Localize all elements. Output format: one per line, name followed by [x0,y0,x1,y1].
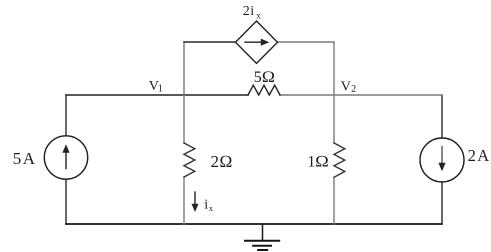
svg-text:1: 1 [158,84,163,95]
svg-text:2: 2 [468,146,476,165]
current source I2 circle (2 A) [420,138,464,182]
ix current arrow (points down) [194,192,196,206]
svg-text:i: i [250,4,254,19]
svg-text:Ω: Ω [315,154,329,171]
I2 arrow (points down) [441,147,443,165]
wire: middle horizontal left segment (y=95, x66-248) [66,94,248,96]
wire: top inner right segment (y=42, x277.5-334) [278,41,335,43]
svg-text:x: x [209,203,214,213]
wire: V2 branch vertical above resistor (x=334, y42-143) [333,42,335,143]
dependent source arrow (points right) [245,41,262,43]
wire: right vertical upper (x=442, y95-138) [441,95,443,138]
wire: V2 branch vertical below resistor (x=334, y177-224) [333,178,335,225]
svg-text:2: 2 [351,84,356,95]
wire: V1 branch vertical above resistor (x=184, y42-143) [183,42,185,143]
svg-text:x: x [256,10,261,20]
resistor R 2ohm (vertical zigzag on x=184) [184,143,195,177]
current source I1 circle (5 A) [44,136,87,179]
svg-text:Ω: Ω [219,152,232,171]
wire: V1 branch vertical below resistor (x=184, y177-224) [183,177,185,224]
wire: top inner left segment (y=42, x184-235.5) [184,41,236,43]
svg-text:Ω: Ω [262,69,276,86]
svg-text:A: A [477,146,489,165]
svg-text:5: 5 [254,69,262,86]
dependent current source diamond (2ix) [236,21,278,63]
I1 arrow (points up) [65,151,67,169]
wire: left vertical lower (x=66, y179-224) [65,179,67,224]
wire: bottom horizontal (y=224) [66,223,442,225]
wire: left vertical upper (x=66, y95-136) [65,95,67,136]
resistor R 5ohm (horizontal zigzag) [248,85,280,95]
svg-text:i: i [204,198,208,213]
resistor R 1ohm (vertical zigzag on x=334) [334,143,345,177]
svg-text:5: 5 [13,149,22,168]
wire: right vertical lower (x=442, y182-224) [441,182,443,224]
wire: middle horizontal right segment (y=95, x280-442) [280,94,442,96]
svg-text:2: 2 [243,4,250,19]
svg-text:2: 2 [211,152,220,171]
ground symbol [262,224,264,241]
svg-text:V: V [341,79,351,94]
svg-text:A: A [23,149,36,168]
